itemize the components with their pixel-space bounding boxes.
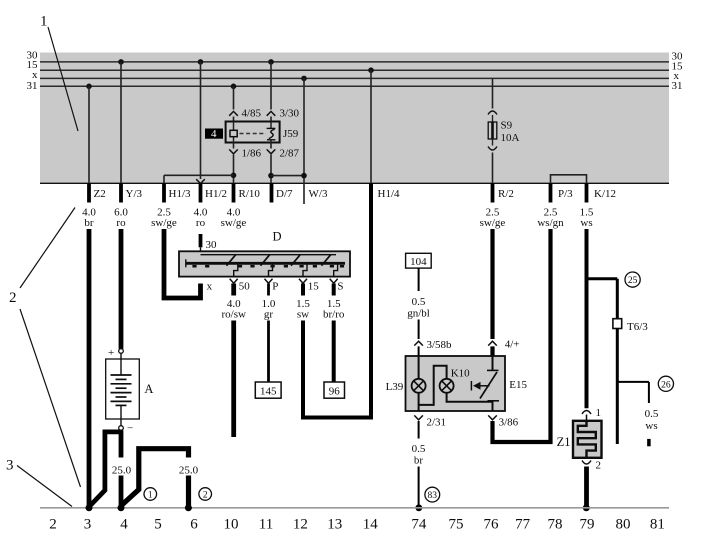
svg-text:145: 145	[260, 386, 277, 398]
svg-text:5: 5	[154, 517, 162, 533]
svg-text:4/+: 4/+	[505, 339, 520, 351]
ground dot track 6	[185, 504, 192, 511]
heater element Z1	[573, 421, 602, 458]
svg-text:S9: S9	[501, 120, 513, 132]
terminal D/7	[272, 183, 294, 202]
wire J59 pin 2/87 down to D/7	[267, 143, 276, 184]
switch contact E15	[480, 356, 499, 411]
svg-text:2: 2	[9, 290, 17, 306]
terminal R/10	[234, 183, 261, 202]
ground symbol 1	[144, 488, 157, 501]
gauge label R/10 4.0 sw/ge	[221, 207, 247, 230]
svg-text:30: 30	[206, 239, 218, 251]
bus line x	[40, 77, 669, 79]
svg-text:sw: sw	[297, 309, 309, 321]
bus labels left	[27, 50, 39, 93]
wire P 1.0 gr	[262, 284, 276, 383]
wire Z1 to track 79	[583, 467, 590, 512]
svg-text:0.5: 0.5	[645, 408, 659, 420]
svg-text:3: 3	[6, 458, 14, 474]
svg-text:P/3: P/3	[558, 188, 573, 200]
switch unit box E15 K10 L39	[406, 356, 506, 411]
connector arc Z1 pin 1	[582, 407, 601, 421]
wire battery minus 25.0 to ground point 4	[112, 430, 132, 508]
svg-text:104: 104	[410, 256, 427, 268]
wire Y/3 thick to battery plus	[119, 229, 124, 349]
svg-text:25: 25	[628, 276, 638, 286]
connection 96	[324, 382, 345, 398]
svg-text:26: 26	[661, 380, 671, 390]
gauge label H1/2 4.0 ro	[194, 207, 208, 230]
svg-text:P: P	[272, 281, 278, 293]
svg-text:25.0: 25.0	[179, 465, 199, 477]
wire battery minus to ground point 3	[89, 432, 122, 507]
pointer line 2b	[20, 309, 81, 487]
fuse S9	[488, 122, 497, 139]
bus line 30	[40, 61, 669, 63]
svg-text:0.5: 0.5	[412, 443, 426, 455]
switch D terminal 50	[230, 279, 251, 293]
track numbers	[49, 517, 665, 533]
svg-text:2: 2	[596, 460, 602, 472]
lamp L39	[412, 356, 426, 411]
svg-text:12: 12	[293, 517, 308, 533]
wire 50 4.0 ro/sw	[221, 284, 246, 438]
svg-text:4/85: 4/85	[242, 108, 262, 120]
svg-text:R/10: R/10	[239, 188, 261, 200]
gauge label Z2 4.0 br	[82, 207, 96, 230]
svg-text:br/ro: br/ro	[323, 309, 345, 321]
svg-text:br: br	[84, 217, 94, 229]
svg-text:ws: ws	[580, 217, 592, 229]
svg-text:ro/sw: ro/sw	[221, 309, 246, 321]
wire K/12 thick to Z1	[585, 229, 589, 408]
wire H1/4 thick drop	[369, 183, 373, 419]
wire S 1.5 br/ro	[323, 284, 345, 383]
svg-text:25.0: 25.0	[112, 465, 132, 477]
svg-text:78: 78	[548, 517, 563, 533]
svg-text:H1/3: H1/3	[169, 188, 192, 200]
pointer line 2a	[20, 208, 75, 289]
svg-text:H1/4: H1/4	[378, 188, 401, 200]
svg-text:2: 2	[203, 491, 208, 501]
battery A	[106, 347, 140, 435]
wire W/3 drop from bus x	[301, 76, 307, 204]
svg-text:Z1: Z1	[557, 435, 571, 449]
wire lamp ground 0.5 br	[412, 421, 426, 511]
svg-text:1: 1	[148, 491, 153, 501]
wire 15 1.5 sw to H1/4	[296, 284, 371, 418]
svg-text:6: 6	[190, 517, 198, 533]
svg-text:4: 4	[211, 128, 217, 140]
svg-text:50: 50	[239, 281, 251, 293]
svg-text:gn/bl: gn/bl	[407, 308, 430, 320]
svg-text:E15: E15	[509, 379, 527, 391]
svg-text:79: 79	[580, 517, 595, 533]
wire J59 pin 3/30 from bus 30	[267, 59, 276, 121]
svg-text:75: 75	[449, 517, 464, 533]
pointer line 3	[17, 466, 72, 507]
designation tag 4	[205, 128, 223, 140]
connector T6/3	[613, 319, 648, 333]
svg-text:13: 13	[327, 517, 342, 533]
svg-text:H1/2: H1/2	[205, 188, 227, 200]
svg-text:2: 2	[49, 517, 57, 533]
svg-text:J59: J59	[283, 128, 299, 140]
gauge label R/2 2.5 sw/ge	[480, 207, 506, 230]
svg-text:81: 81	[650, 517, 665, 533]
terminal Y/3	[121, 183, 143, 202]
svg-text:77: 77	[515, 517, 531, 533]
terminal R/2	[493, 183, 514, 202]
svg-text:3: 3	[84, 517, 92, 533]
svg-text:2/31: 2/31	[427, 416, 447, 428]
svg-text:14: 14	[363, 517, 379, 533]
svg-text:x: x	[207, 281, 213, 293]
svg-text:31: 31	[672, 80, 683, 92]
switch D terminal 15	[299, 279, 319, 293]
ground dot track 4	[118, 504, 125, 511]
wire H1/4 drop from bus 15	[368, 67, 374, 183]
wire ground strap 25.0 track4 to track6	[122, 449, 199, 508]
bus line 31	[40, 85, 669, 87]
wire R/2 thick to E15	[488, 229, 497, 356]
gauge label Y/3 6.0 ro	[114, 207, 128, 230]
wire branch to T6/3	[587, 279, 618, 319]
svg-text:3/86: 3/86	[499, 416, 519, 428]
svg-text:sw/ge: sw/ge	[151, 217, 177, 229]
svg-text:76: 76	[484, 517, 500, 533]
busbar shaded band 1	[40, 53, 669, 184]
pin label 3/86	[488, 415, 518, 428]
svg-text:1/86: 1/86	[242, 147, 262, 159]
wire Z2 thick to ground point 3	[87, 229, 92, 508]
ground symbol 2	[199, 488, 212, 501]
switch actuator arrow	[471, 381, 489, 391]
svg-text:−: −	[127, 423, 133, 435]
fuse S9 feed from bus x	[488, 78, 497, 122]
wire J59 pin 4/85 from bus 31	[229, 84, 238, 122]
wire branch 26 0.5 ws	[617, 382, 659, 446]
wire bracket P/3 K/12	[551, 175, 587, 184]
terminal H1/4	[371, 183, 400, 202]
svg-text:+: +	[108, 347, 114, 359]
svg-text:T6/3: T6/3	[627, 321, 648, 333]
terminal P/3	[551, 183, 574, 202]
terminal Z2	[89, 183, 106, 202]
bus labels right	[672, 51, 684, 93]
svg-text:15: 15	[308, 281, 320, 293]
svg-text:31: 31	[27, 80, 38, 92]
ground dot track 3	[86, 504, 93, 511]
svg-text:1: 1	[40, 14, 48, 30]
svg-text:10A: 10A	[501, 132, 520, 144]
svg-text:S: S	[337, 281, 343, 293]
relay J59	[226, 122, 280, 143]
pointer line 1	[48, 27, 78, 131]
terminal K/12	[587, 183, 617, 202]
svg-text:3/58b: 3/58b	[427, 339, 453, 351]
svg-text:L39: L39	[386, 381, 404, 393]
gauge label K/12 1.5 ws	[580, 207, 594, 230]
connection 104	[406, 253, 432, 268]
connection 145	[255, 382, 281, 398]
wire T6/3 down	[616, 329, 619, 445]
gauge label P/3 2.5 ws/gn	[537, 207, 564, 230]
switch D terminal 30 stub	[197, 234, 218, 277]
switch D terminal S	[330, 279, 344, 293]
wire H1/3 thick to switch D terminal x	[164, 229, 201, 298]
terminal H1/2	[201, 183, 228, 202]
svg-text:74: 74	[411, 517, 427, 533]
gauge label H1/3 2.5 sw/ge	[151, 207, 177, 230]
svg-text:83: 83	[428, 491, 438, 501]
ground rail	[40, 507, 669, 509]
svg-text:W/3: W/3	[309, 188, 328, 200]
svg-text:2/87: 2/87	[280, 147, 300, 159]
svg-text:Y/3: Y/3	[126, 188, 143, 200]
wire J59 pin 1/86 down to R/10	[229, 143, 238, 184]
lamp K10	[419, 366, 493, 405]
ground symbol 83	[425, 487, 440, 502]
bus line 15	[40, 69, 669, 71]
svg-text:sw/ge: sw/ge	[221, 217, 247, 229]
switch D terminal P	[265, 279, 279, 293]
svg-text:gr: gr	[264, 309, 274, 321]
svg-text:sw/ge: sw/ge	[480, 217, 506, 229]
svg-text:br: br	[414, 455, 424, 467]
svg-text:D/7: D/7	[276, 188, 293, 200]
wire Z2 drop from bus 31	[86, 84, 92, 184]
svg-text:4: 4	[120, 517, 128, 533]
svg-text:R/2: R/2	[498, 188, 514, 200]
ground symbol 25	[625, 272, 640, 287]
svg-text:ro: ro	[196, 217, 206, 229]
wire jumper D/7 to W/3	[271, 175, 304, 177]
svg-text:96: 96	[329, 386, 341, 398]
wire H1/2 drop from bus 30	[196, 59, 205, 183]
terminal H1/3	[164, 183, 191, 202]
svg-text:1: 1	[596, 407, 602, 419]
ground symbol 26	[658, 376, 673, 391]
wire jumper H1/3 to R/10	[164, 175, 234, 183]
svg-text:K10: K10	[451, 368, 470, 380]
svg-text:ro: ro	[116, 217, 126, 229]
svg-text:0.5: 0.5	[412, 296, 426, 308]
wire fuse to R/2	[488, 139, 497, 183]
svg-text:A: A	[144, 382, 153, 396]
wire 104 to lamp 0.5 gn/bl	[407, 268, 430, 356]
wire Y/3 drop from bus 30	[118, 59, 124, 183]
svg-text:11: 11	[259, 517, 273, 533]
pin label 2/31	[414, 415, 446, 428]
svg-text:3/30: 3/30	[280, 108, 300, 120]
svg-text:80: 80	[616, 517, 631, 533]
svg-text:ws/gn: ws/gn	[537, 217, 564, 229]
ignition starter switch D	[179, 251, 350, 276]
svg-text:K/12: K/12	[594, 188, 616, 200]
svg-text:ws: ws	[645, 420, 657, 432]
svg-text:D: D	[273, 230, 282, 244]
svg-text:Z2: Z2	[94, 188, 106, 200]
wire E15 3/86 to P/3	[493, 229, 551, 442]
connector arc Z1 pin 2	[582, 460, 601, 472]
svg-text:10: 10	[224, 517, 239, 533]
